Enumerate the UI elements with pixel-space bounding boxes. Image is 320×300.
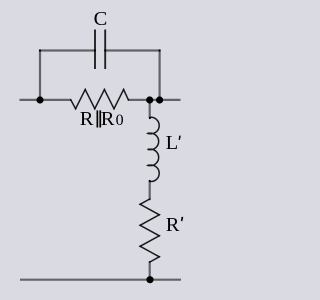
label R prime mark (181, 217, 183, 221)
node: inductor bottom junction (149, 180, 151, 182)
node: junction dot at inductor branch (146, 96, 153, 103)
wire: between inductor and resistor R' (149, 181, 151, 199)
wire: right vertical branch up to capacitor loop (159, 51, 161, 101)
wire: top loop left segment to capacitor (39, 49, 95, 51)
node: R' top junction (149, 198, 151, 200)
node: top-left corner (39, 49, 41, 51)
label L prime (179, 136, 181, 140)
node: wire-plate junction right (104, 49, 106, 51)
node: left junction dot (36, 96, 43, 103)
inductor L' coil loops (148, 117, 159, 181)
svg-text:R: R (166, 214, 180, 236)
node: zigzag vertex dots R' (139, 203, 160, 257)
node: R' bottom junction (149, 261, 151, 263)
resistor R' zigzag (140, 199, 159, 262)
resistor R||R0 zigzag (71, 90, 129, 109)
wire: main horizontal wire left segment (20, 99, 72, 101)
wire: below resistor R' to bottom wire (149, 262, 151, 280)
svg-text:0: 0 (116, 112, 124, 129)
wire: top loop right segment from capacitor (105, 49, 160, 51)
svg-text:R: R (101, 108, 115, 130)
wire: inductor branch from main wire (149, 100, 151, 118)
node: top-right corner (158, 49, 160, 51)
svg-text:L: L (166, 132, 179, 154)
node: junction dot at right capacitor branch (156, 96, 163, 103)
node: zigzag vertex dots R||R0 (70, 89, 129, 110)
wire: bottom horizontal wire (20, 279, 181, 281)
node: wire-plate junction left (94, 49, 96, 51)
node: bottom junction dot (146, 276, 153, 283)
wire: left vertical branch up to capacitor loop (39, 51, 41, 101)
capacitor C left plate (94, 30, 96, 70)
node: inductor cusp dots (147, 132, 149, 166)
capacitor C right plate (104, 30, 106, 70)
svg-text:C: C (94, 8, 108, 30)
node: inductor top junction (149, 117, 151, 119)
label parallel bars of R||R0 (97, 110, 99, 127)
svg-text:R: R (80, 108, 94, 130)
wire: main horizontal wire right segment (128, 99, 180, 101)
